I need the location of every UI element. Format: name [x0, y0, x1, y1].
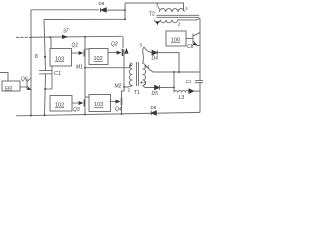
- diode D6: [151, 111, 156, 116]
- mosfet Q4: [111, 101, 116, 103]
- svg-text:103: 103: [94, 102, 103, 108]
- svg-text:C8: C8: [187, 44, 194, 50]
- box 103: [50, 49, 72, 67]
- wire input stub: [0, 73, 8, 82]
- junction at (85,37): [84, 36, 86, 38]
- wire mid rail: [31, 35, 123, 38]
- node junction x125: [125, 3, 184, 19]
- pin 4 of T1: [145, 65, 147, 67]
- wire right leg upper: [123, 37, 124, 87]
- box 110: [2, 81, 20, 91]
- wire output rail: [146, 66, 201, 72]
- svg-text:T1: T1: [134, 90, 140, 96]
- svg-text:L3: L3: [179, 95, 185, 101]
- box 102 bottom: [50, 96, 72, 112]
- wire top outer rail: [31, 9, 125, 11]
- wire M2 node: [124, 86, 133, 88]
- junction dots mid rail: [30, 37, 32, 39]
- node 8: [44, 56, 46, 58]
- box 100: [166, 31, 186, 46]
- wire bottom rail: [16, 112, 200, 115]
- svg-text:2: 2: [178, 22, 181, 27]
- svg-text:100: 100: [171, 38, 180, 44]
- svg-text:M1: M1: [76, 65, 83, 71]
- svg-text:Q3: Q3: [73, 107, 80, 113]
- svg-text:37: 37: [63, 29, 69, 35]
- svg-text:Q1: Q1: [72, 43, 79, 49]
- diode D4: [152, 50, 157, 55]
- transistor Q6: [20, 78, 31, 90]
- wire secondary bottom: [143, 86, 155, 88]
- junction at (50,37): [49, 36, 51, 38]
- wire inner top rail: [44, 18, 125, 20]
- svg-text:D6: D6: [151, 105, 157, 110]
- wire secondary top to D4: [143, 47, 153, 64]
- diode D7: [189, 89, 194, 94]
- wire right bus: [199, 18, 201, 112]
- svg-text:4: 4: [185, 6, 188, 11]
- junction at (45,89): [44, 88, 46, 90]
- wire primary top: [85, 65, 133, 68]
- svg-text:Q2: Q2: [111, 42, 118, 48]
- mosfet Q3: [72, 102, 78, 104]
- svg-text:D8: D8: [99, 1, 105, 6]
- svg-text:Q4: Q4: [115, 107, 122, 113]
- wire D5 out: [160, 87, 175, 89]
- svg-text:8: 8: [35, 54, 38, 60]
- wire box103 feed: [50, 37, 52, 48]
- wire Q4 to rail: [122, 87, 125, 114]
- junction at (125,19): [124, 18, 126, 20]
- wire inner vertical bus: [44, 20, 46, 116]
- svg-text:103: 103: [55, 57, 64, 63]
- mosfet Q1: [72, 52, 79, 54]
- svg-text:102: 102: [55, 103, 64, 109]
- svg-text:Q6: Q6: [21, 77, 28, 83]
- transformer T2: [155, 7, 201, 23]
- svg-text:110: 110: [5, 85, 13, 91]
- junction at (179,72): [178, 71, 180, 73]
- svg-text:D5: D5: [152, 91, 159, 97]
- capacitor C1: [39, 66, 53, 89]
- wire box103b feed: [85, 96, 89, 98]
- junction at (85,114.5): [84, 114, 86, 116]
- box 102: [89, 49, 108, 65]
- junction at (124,87): [123, 86, 125, 88]
- svg-text:3: 3: [140, 43, 143, 48]
- diode D8: [101, 8, 107, 12]
- svg-text:T2: T2: [149, 12, 155, 18]
- svg-text:2: 2: [128, 88, 131, 93]
- wire D4 out: [157, 53, 179, 72]
- wire tap vertical: [173, 72, 175, 88]
- diode D5: [155, 85, 160, 90]
- transformer T1: [129, 62, 145, 86]
- box 103 bottom: [89, 95, 111, 112]
- junction at (44,115): [44, 114, 46, 116]
- svg-text:C1: C1: [54, 71, 61, 77]
- wire right leg lower: [123, 87, 125, 91]
- mosfet Q2: [108, 52, 117, 54]
- wire left leg: [84, 37, 86, 115]
- node 37 arrow: [62, 35, 68, 39]
- wire left bus: [30, 10, 32, 116]
- transistor Q7: [186, 33, 200, 46]
- arrow at Q2: [125, 48, 129, 54]
- junction at (174,87.5): [173, 87, 175, 89]
- junction dots bottom rail: [30, 115, 32, 117]
- svg-text:102: 102: [94, 56, 103, 62]
- junction at (174,72): [173, 71, 175, 73]
- inductor L3: [174, 88, 189, 93]
- junction at (125,10): [124, 9, 126, 11]
- junction at (85,68): [84, 67, 86, 69]
- pin 5 of T1: [141, 82, 143, 84]
- svg-text:M2: M2: [115, 83, 122, 89]
- svg-text:C1: C1: [186, 79, 192, 84]
- polarity arrow T2: [156, 21, 160, 25]
- junction at (121.5,114): [121, 113, 123, 115]
- capacitor C7: [195, 81, 203, 83]
- svg-text:D4: D4: [152, 56, 159, 62]
- wire box102 feed: [85, 48, 89, 50]
